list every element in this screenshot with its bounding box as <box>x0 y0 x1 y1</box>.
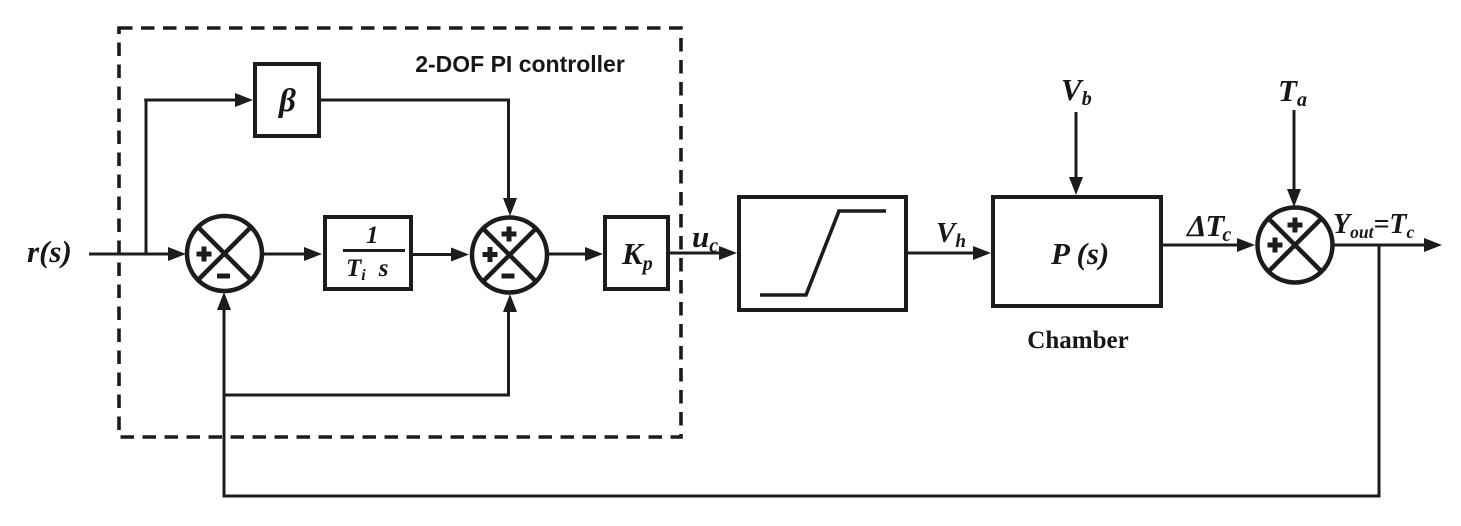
label: Vb disturbance <box>1061 72 1092 110</box>
fraction bar of integrator <box>343 249 405 252</box>
svg-text:Vh: Vh <box>936 217 966 252</box>
label: Vh <box>936 217 966 252</box>
wire: integrator output to S2 <box>413 248 469 262</box>
label: r(s) input <box>27 234 72 269</box>
svg-text:r(s): r(s) <box>27 234 72 269</box>
wire: inner feedback branch to bottom of S2 <box>224 294 517 395</box>
wire: saturation output to P(s) with label Vh <box>908 246 991 260</box>
sign: minus (bottom) of S2 <box>502 274 515 279</box>
wire: horizontal into beta block with arrowhead <box>144 93 253 107</box>
svg-text:ΔTc: ΔTc <box>1185 208 1231 246</box>
label: P (s) <box>1050 236 1109 271</box>
block: saturation <box>739 197 906 310</box>
wire: Ta arrow into top of S3 <box>1287 110 1301 207</box>
block: integrator 1/(Ti s) <box>325 217 411 289</box>
label: 1 over Ti s <box>346 222 388 284</box>
label: uc <box>692 219 718 257</box>
saturation curve <box>760 211 886 295</box>
svg-text:2-DOF PI controller: 2-DOF PI controller <box>415 51 625 77</box>
sign: plus (top) of S2 <box>502 227 517 242</box>
svg-text:Chamber: Chamber <box>1027 327 1128 354</box>
label: beta <box>277 83 296 119</box>
label: Ta disturbance <box>1278 73 1307 111</box>
wire: feedback from output down and across bottom up into S1 <box>217 245 1379 496</box>
wire: beta output to top of summing junction S2 <box>321 100 517 216</box>
wire: S1 output to integrator block <box>263 247 322 261</box>
svg-text:Kp: Kp <box>621 236 653 275</box>
wire: Vb arrow into top of P(s) <box>1069 112 1083 195</box>
sign: plus (left) of S1 <box>197 247 212 262</box>
summing junction S3 <box>1258 208 1333 283</box>
svg-text:Vb: Vb <box>1061 72 1092 110</box>
sign: plus (top) of S3 <box>1288 218 1303 233</box>
block: beta <box>255 64 319 136</box>
wire: r(s) input line <box>89 247 186 261</box>
label: 2-DOF PI controller <box>415 51 625 77</box>
wire: Kp output to saturation block with label uc <box>670 246 737 260</box>
svg-text:P (s): P (s) <box>1050 236 1109 271</box>
wire: S2 output to Kp block <box>548 247 603 261</box>
sign: plus (left) of S3 <box>1268 238 1283 253</box>
svg-text:uc: uc <box>692 219 718 257</box>
summing junction S2 <box>472 218 547 293</box>
label: Yout=Tc <box>1333 209 1415 242</box>
wire: S3 output Yout=Tc <box>1333 238 1442 252</box>
svg-text:β: β <box>277 83 296 119</box>
dashed boundary box: 2-DOF PI controller <box>119 28 681 437</box>
label: Kp <box>621 236 653 275</box>
label: Chamber <box>1027 327 1128 354</box>
block: Kp <box>605 217 668 289</box>
svg-text:Tis: Tis <box>346 255 388 284</box>
sign: minus (bottom) of S1 <box>217 274 230 279</box>
label: delta Tc <box>1185 208 1231 246</box>
summing junction S1 <box>187 216 262 291</box>
svg-text:Ta: Ta <box>1278 73 1307 111</box>
wire: P(s) output to S3 with label delta Tc <box>1163 238 1255 252</box>
sign: plus (left) of S2 <box>483 247 498 262</box>
svg-text:Yout=Tc: Yout=Tc <box>1333 209 1415 242</box>
wire: branch up from r(s) line toward beta <box>145 100 148 256</box>
svg-text:1: 1 <box>366 222 379 249</box>
block: P(s) chamber plant <box>993 197 1161 306</box>
